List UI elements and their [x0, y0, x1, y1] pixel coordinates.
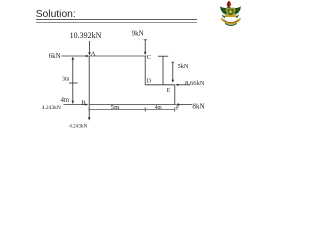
shield green band	[228, 9, 234, 16]
svg-text:A: A	[91, 51, 96, 58]
force arrow 4.243kN right at B	[64, 104, 86, 106]
svg-text:D: D	[147, 78, 152, 84]
dimension vertical bottom arrowhead	[72, 101, 75, 104]
force arrow 8kN left at F	[178, 103, 192, 105]
svg-text:5kN: 5kN	[178, 63, 189, 70]
wing shoulder gold left	[225, 10, 227, 12]
shield gold center	[229, 10, 232, 13]
svg-text:4.243kN: 4.243kN	[69, 123, 87, 129]
svg-text:Solution:: Solution:	[36, 9, 76, 20]
talon curl left	[222, 14, 225, 18]
hanger T crossbar	[158, 55, 168, 57]
torch holder diamond	[227, 5, 231, 10]
force arrow 5kN down	[172, 62, 174, 80]
eagle right wing	[233, 6, 241, 14]
KNUST crest logo	[220, 1, 241, 26]
wing shoulder gold right	[234, 10, 236, 12]
member bottom chord B-F	[89, 103, 176, 105]
svg-text:8kN: 8kN	[192, 103, 204, 111]
force arrow 8.66kN left at E	[178, 84, 190, 86]
talon curl right	[236, 14, 239, 18]
member top chord A-C	[89, 55, 146, 57]
svg-text:F: F	[176, 104, 180, 111]
force arrow 9kN down at C	[144, 40, 146, 52]
body shield gold	[226, 8, 235, 17]
eagle left wing lower feathers	[222, 12, 228, 15]
banner shading line	[223, 20, 238, 23]
torch flame dark side	[227, 1, 229, 6]
force arrow 6kN right at A	[62, 55, 87, 57]
member left column A-B	[88, 56, 90, 104]
svg-text:8.66kN: 8.66kN	[185, 80, 205, 87]
svg-text:5m: 5m	[111, 104, 120, 111]
svg-text:3m: 3m	[62, 75, 70, 82]
svg-text:4m: 4m	[155, 105, 162, 111]
member C-D	[144, 56, 146, 85]
svg-text:4m: 4m	[61, 96, 70, 104]
base leaves green	[225, 23, 236, 25]
dimension vertical top arrowhead	[72, 57, 75, 60]
eagle left wing	[220, 6, 228, 14]
dimension mid tick	[69, 82, 78, 84]
force arrow 4.243kN down below B	[88, 104, 90, 117]
eagle right wing lower feathers	[233, 12, 239, 15]
gold perch bar	[225, 15, 237, 17]
member E-F	[174, 85, 176, 105]
dimension horizontal 5m/4m line	[89, 108, 175, 110]
hanger T stem	[162, 56, 164, 85]
banner scroll gold	[221, 17, 241, 24]
dim tick mid	[144, 107, 146, 111]
svg-text:E: E	[167, 88, 171, 94]
dim tick at F	[174, 107, 176, 111]
torch flame red	[227, 1, 231, 6]
svg-text:6kN: 6kN	[49, 52, 61, 60]
svg-text:C: C	[147, 54, 151, 61]
dimension vertical 3m/4m line	[72, 59, 74, 102]
force arrow 10.392kN down at A	[89, 41, 91, 52]
member D-E	[145, 84, 175, 86]
svg-text:10.392kN: 10.392kN	[70, 31, 102, 40]
svg-text:9kN: 9kN	[132, 30, 144, 38]
svg-text:4.243kN: 4.243kN	[42, 105, 61, 111]
dim tick at B	[88, 107, 90, 111]
title rule lower	[36, 22, 197, 24]
title rule upper	[36, 19, 197, 21]
